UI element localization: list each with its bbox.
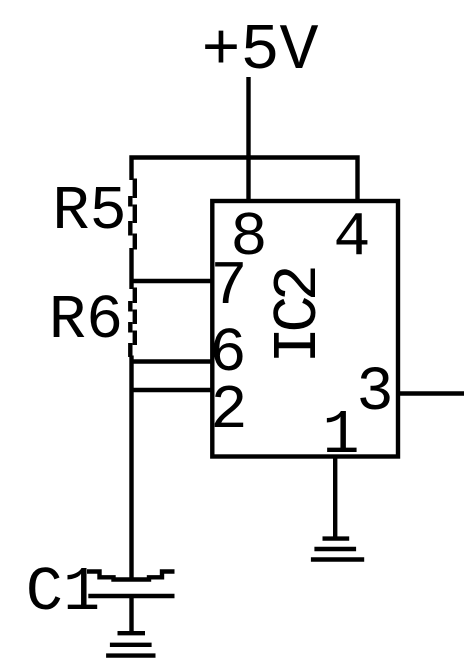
- resistor R5: [130, 179, 135, 250]
- ground under C1: [106, 633, 155, 655]
- svg-text:R6: R6: [49, 285, 123, 356]
- svg-text:+5V: +5V: [201, 14, 318, 88]
- wire left rail R5 to R6: [129, 248, 133, 289]
- svg-text:4: 4: [333, 202, 370, 273]
- wire C1 to ground: [129, 596, 133, 633]
- IC U1 IC2 box: [212, 201, 398, 457]
- wire pin 7: [130, 279, 213, 283]
- wire left rail to capacitor C1: [129, 356, 133, 581]
- wire pin 3 output: [398, 391, 464, 395]
- capacitor C1: [87, 572, 175, 597]
- svg-text:C1: C1: [26, 557, 100, 628]
- resistor R6: [130, 288, 135, 358]
- svg-text:R5: R5: [52, 176, 126, 247]
- wire top horizontal rail: [132, 158, 358, 202]
- svg-text:2: 2: [210, 375, 247, 446]
- wire pin 2: [130, 388, 213, 392]
- wire pin 6: [130, 359, 213, 363]
- wire pin 1 to ground: [333, 457, 337, 539]
- svg-text:3: 3: [356, 357, 393, 428]
- ground under pin 1: [311, 539, 364, 560]
- svg-text:IC2: IC2: [263, 268, 334, 363]
- svg-text:1: 1: [322, 400, 359, 471]
- wire +5V vertical to pin 8: [246, 77, 250, 201]
- svg-text:7: 7: [210, 251, 247, 322]
